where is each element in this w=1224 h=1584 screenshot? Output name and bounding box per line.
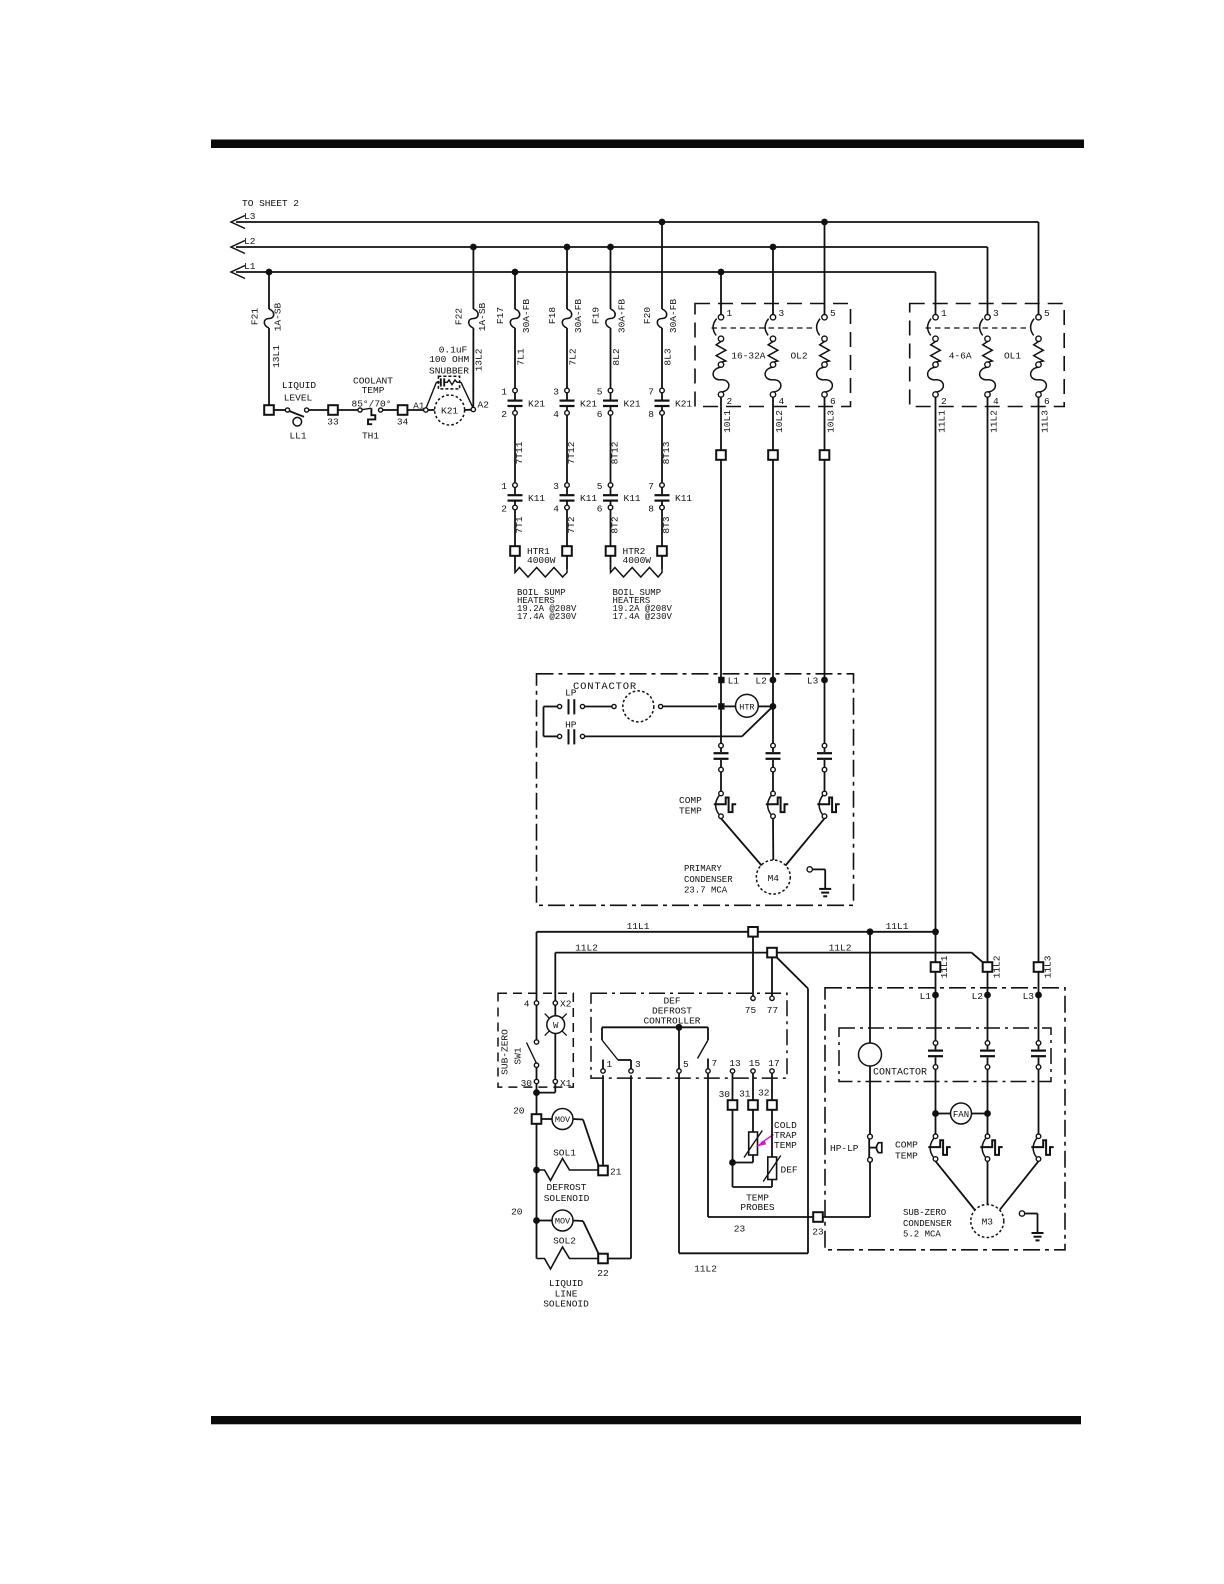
top border bar (211, 140, 1084, 149)
svg-text:PRIMARY: PRIMARY (684, 864, 722, 874)
sub-zero contactor coil (859, 1043, 882, 1066)
node 11L1-OL1 (932, 928, 939, 935)
svg-text:15: 15 (749, 1058, 761, 1069)
terminal 75 tap (748, 927, 758, 937)
svg-text:7T1: 7T1 (514, 516, 525, 533)
thermistor cold trap (752, 1110, 754, 1132)
svg-text:SOL1: SOL1 (553, 1148, 576, 1159)
svg-text:33: 33 (327, 417, 339, 428)
comp temp contact subzero L1 (933, 1134, 938, 1139)
svg-text:F21: F21 (250, 308, 261, 325)
terminal 11L2 (983, 962, 993, 972)
svg-text:A2: A2 (478, 400, 490, 411)
svg-text:TEMP: TEMP (895, 1151, 918, 1162)
svg-text:10L3: 10L3 (826, 410, 837, 433)
wire 23 into subzero box (823, 1216, 870, 1218)
main contact pole L1 (719, 743, 724, 748)
svg-text:L1: L1 (244, 261, 256, 272)
svg-text:TEMP: TEMP (774, 1140, 797, 1151)
svg-text:7: 7 (648, 387, 654, 398)
svg-text:11L2: 11L2 (575, 942, 598, 953)
svg-text:21: 21 (610, 1167, 622, 1178)
wire X1 to node 20 (554, 1084, 556, 1093)
node A1 (424, 408, 428, 412)
svg-text:20: 20 (511, 1207, 523, 1218)
svg-text:F17: F17 (495, 307, 506, 324)
wire subzero comp L2 to M3 (987, 1161, 989, 1204)
pin 17 (770, 1069, 774, 1073)
wire 34 to A1 (407, 409, 423, 411)
svg-text:11L2: 11L2 (829, 942, 852, 953)
svg-text:23.7 MCA: 23.7 MCA (684, 886, 728, 896)
wire L3 to OL1 pin5 (1038, 222, 1040, 315)
svg-text:CONDENSER: CONDENSER (684, 875, 733, 885)
wire MOV1 to 21 (583, 1120, 599, 1167)
svg-text:23: 23 (734, 1224, 746, 1235)
terminal heater 8T2 (606, 546, 616, 556)
svg-text:11L2: 11L2 (989, 410, 1000, 433)
OL2 trip linkage (712, 327, 815, 329)
svg-text:1: 1 (727, 308, 733, 319)
node L3 (821, 677, 828, 684)
svg-text:5: 5 (830, 308, 836, 319)
node probes (729, 1159, 736, 1166)
wire 11L2 horizontal (555, 952, 971, 954)
wire 11L2 diagonal to terminal (972, 953, 985, 964)
terminal 22 (598, 1254, 608, 1264)
main contact pole L2 (771, 743, 776, 748)
sub-zero switch box SW1 (498, 993, 573, 1087)
svg-text:4: 4 (553, 409, 559, 420)
OL1 trip linkage (926, 327, 1029, 329)
svg-text:LIQUID: LIQUID (549, 1278, 584, 1289)
OL2 pole 1-2 (718, 315, 723, 320)
OL1 pole 1-2 (933, 315, 938, 320)
overload relay OL2 box (695, 304, 851, 407)
svg-text:CONDENSER: CONDENSER (903, 1219, 952, 1229)
svg-text:6: 6 (597, 409, 603, 420)
wire defrost pin1 to 21 (602, 1075, 604, 1166)
svg-text:4: 4 (993, 396, 999, 407)
svg-text:CONTROLLER: CONTROLLER (643, 1015, 700, 1026)
contact K11 1-2 (513, 483, 518, 488)
svg-text:17.4A @230V: 17.4A @230V (613, 612, 673, 622)
svg-text:6: 6 (1044, 396, 1050, 407)
svg-text:LIQUID: LIQUID (282, 380, 317, 391)
motor M4 (756, 860, 790, 894)
svg-text:A1: A1 (413, 401, 425, 412)
svg-text:TO SHEET 2: TO SHEET 2 (242, 198, 299, 209)
svg-text:7T2: 7T2 (566, 516, 577, 533)
wire 11L2 tap diagonal (777, 957, 809, 988)
sub-zero pole L1 (933, 1041, 938, 1046)
wire 33 to TH1 (338, 409, 358, 411)
svg-text:11L1: 11L1 (886, 921, 909, 932)
wire 75 up (752, 937, 754, 997)
svg-text:2: 2 (941, 396, 947, 407)
svg-text:K11: K11 (528, 493, 545, 504)
varistor MOV 1 (541, 1118, 552, 1120)
svg-text:16-32A: 16-32A (731, 350, 766, 361)
svg-text:MOV: MOV (555, 1217, 571, 1227)
pin 30 (534, 1079, 538, 1083)
wire 11L3 from OL1 (1038, 406, 1040, 962)
fuse F19 30A-FB (610, 247, 612, 309)
wire coil to HP-LP (869, 1066, 871, 1134)
svg-text:11L1: 11L1 (627, 921, 650, 932)
svg-text:22: 22 (597, 1268, 609, 1279)
fuse F21 1A-SB (268, 272, 270, 309)
pin 5 (677, 1069, 681, 1073)
svg-text:CONTACTOR: CONTACTOR (573, 681, 637, 693)
node L1 (932, 992, 939, 999)
defrost relay internal (602, 1026, 708, 1028)
wire SOL1 node down (536, 1170, 538, 1221)
fan motor FAN (932, 1110, 939, 1117)
contact K11 5-6 (608, 483, 613, 488)
svg-text:X2: X2 (560, 999, 572, 1010)
node L2 (984, 992, 991, 999)
svg-text:L1: L1 (728, 676, 740, 687)
svg-text:MOV: MOV (555, 1115, 571, 1125)
wire 10L2 (772, 406, 774, 450)
svg-text:75: 75 (745, 1005, 757, 1016)
svg-text:17: 17 (768, 1058, 779, 1069)
heater relay HTR (736, 694, 759, 717)
wire net 11L2 from pin5 (678, 1073, 680, 1253)
terminal 23 (813, 1212, 823, 1222)
node coil-L1 (718, 703, 724, 709)
fuse F22 1A-SB (472, 247, 474, 309)
contact K11 7-8 (660, 483, 665, 488)
switch SW1 contact (536, 1005, 538, 1040)
svg-text:32: 32 (758, 1088, 770, 1099)
wire 7T11 (514, 415, 516, 483)
sub-zero pole L3 (1036, 1041, 1041, 1046)
svg-text:1: 1 (607, 1059, 613, 1070)
contact K11 3-4 (565, 483, 570, 488)
svg-text:6: 6 (830, 396, 836, 407)
pin 3 (629, 1069, 633, 1073)
pin 1 (601, 1069, 605, 1073)
terminal 10L1 (716, 450, 726, 460)
wire subzero comp L1 to M3 (936, 1161, 975, 1209)
svg-text:30: 30 (719, 1089, 731, 1100)
wire 77 up (771, 957, 773, 996)
svg-text:LEVEL: LEVEL (284, 393, 313, 404)
wire subzero comp L3 to M3 (1000, 1161, 1039, 1209)
wire L2 into box (772, 460, 774, 744)
overload relay OL1 box (910, 304, 1064, 407)
svg-text:K21: K21 (675, 399, 692, 410)
svg-text:DEF: DEF (781, 1165, 798, 1176)
svg-text:K21: K21 (528, 399, 545, 410)
wire comp temp L1 to M4 (721, 818, 762, 865)
svg-text:K21: K21 (441, 406, 458, 417)
svg-text:8T3: 8T3 (661, 516, 672, 533)
svg-text:OL2: OL2 (790, 350, 807, 361)
svg-text:2: 2 (727, 396, 733, 407)
wire pin13 to 30 (732, 1073, 734, 1100)
svg-text:5: 5 (597, 387, 603, 398)
wire 8T12 (610, 415, 612, 483)
wire poles down (935, 1069, 937, 1134)
wire 7T12 (566, 415, 568, 483)
svg-text:F19: F19 (591, 307, 602, 324)
wire L3 pole to comp temp (824, 772, 826, 791)
wire comp temp L2 to M4 (772, 818, 774, 860)
svg-text:L2: L2 (972, 991, 984, 1002)
node 11L1 contactor tap (867, 928, 874, 935)
node L1 (718, 677, 724, 683)
lamp W (554, 1005, 556, 1016)
svg-text:13L1: 13L1 (271, 345, 282, 368)
svg-text:F18: F18 (547, 307, 558, 324)
wire 7T1 (514, 510, 516, 546)
terminal heater 7T1 (510, 546, 520, 556)
pin 7 (706, 1069, 710, 1073)
wire 22 to defrost pin3 (608, 1258, 631, 1260)
wire 8T3 (661, 510, 663, 546)
wire coil to L1 (663, 705, 717, 707)
thermistor DEF (771, 1110, 773, 1157)
bus L3 (236, 221, 1039, 223)
svg-text:LL1: LL1 (289, 431, 306, 442)
wire L2 to OL1 pin3 (987, 247, 989, 315)
wire L1 to OL1 pin1 (935, 272, 937, 315)
svg-text:11L1: 11L1 (937, 410, 948, 433)
svg-text:1A-SB: 1A-SB (477, 302, 488, 331)
svg-text:3: 3 (993, 308, 999, 319)
pin 15 (751, 1069, 755, 1073)
svg-text:SUB-ZERO: SUB-ZERO (500, 1029, 511, 1075)
wire snubber leg right (461, 382, 473, 407)
annotation arrow (761, 1135, 774, 1144)
wire 11L2 from OL1 (987, 406, 989, 962)
wire probes bottom (733, 1186, 773, 1188)
bottom border bar (211, 1416, 1081, 1424)
main contact pole L3 (822, 743, 827, 748)
terminal 11L1 (931, 962, 941, 972)
wire L3 into box (824, 460, 826, 744)
wire snubber leg left (426, 382, 436, 407)
wire 11L2 down to X2 (554, 953, 556, 1001)
svg-text:5: 5 (597, 481, 603, 492)
wire 7T2 (566, 510, 568, 546)
svg-text:SOLENOID: SOLENOID (543, 1299, 589, 1310)
OL1 pole 3-4 (985, 315, 990, 320)
node below SW1 (533, 1089, 540, 1096)
wire OL2 pin1 to L1 (720, 272, 722, 315)
svg-text:8T12: 8T12 (610, 441, 621, 464)
svg-text:1A-SB: 1A-SB (273, 302, 284, 331)
svg-text:8: 8 (648, 409, 654, 420)
svg-text:8L3: 8L3 (663, 348, 674, 365)
svg-text:30: 30 (521, 1078, 533, 1089)
svg-text:L3: L3 (807, 676, 819, 687)
fuse F18 30A-FB (566, 247, 568, 309)
svg-text:1: 1 (501, 387, 507, 398)
wire OL2 pin3 to L2 (772, 247, 774, 315)
wire MOV2 to 22 (583, 1221, 599, 1254)
primary condenser box (537, 674, 854, 906)
svg-text:SOL2: SOL2 (553, 1236, 576, 1247)
svg-text:K11: K11 (580, 493, 597, 504)
svg-text:11L1: 11L1 (939, 955, 950, 978)
wire 30 down (732, 1110, 734, 1187)
svg-text:COMP: COMP (895, 1140, 918, 1151)
comp temp contact subzero L3 (1036, 1134, 1041, 1139)
OL2 pole 3-4 (770, 315, 775, 320)
node HTR-L2 (770, 703, 777, 710)
wire LP-HP left (544, 706, 558, 708)
svg-text:2: 2 (501, 409, 507, 420)
sub-zero pole L2 (985, 1041, 990, 1046)
svg-text:4000W: 4000W (623, 555, 652, 566)
svg-text:4: 4 (524, 999, 530, 1010)
svg-text:L2: L2 (755, 676, 767, 687)
svg-text:L2: L2 (244, 236, 256, 247)
wire 11L1 down to SW1 (536, 932, 538, 1001)
svg-text:8: 8 (648, 504, 654, 515)
svg-text:8L2: 8L2 (611, 348, 622, 365)
terminal 20 (532, 1114, 542, 1124)
svg-text:SOLENOID: SOLENOID (544, 1193, 590, 1204)
svg-text:TEMP: TEMP (679, 805, 702, 816)
node A2 (471, 407, 475, 411)
svg-text:17.4A @230V: 17.4A @230V (517, 612, 577, 622)
svg-text:4-6A: 4-6A (949, 350, 972, 361)
terminal 34 (398, 405, 408, 415)
terminal 11L3 (1034, 962, 1044, 972)
bus L2 (236, 246, 988, 248)
comp temp contact L2 (771, 791, 776, 796)
contact K21 1-2 (513, 388, 518, 393)
node MOV2 (533, 1217, 540, 1224)
contact K21 5-6 (608, 388, 613, 393)
bus L1 (236, 271, 936, 273)
node L2 (770, 677, 777, 684)
terminal on 13L1 (264, 405, 274, 415)
svg-text:COMP: COMP (679, 795, 702, 806)
wire net 23 from pin7 (707, 1073, 709, 1217)
svg-text:K11: K11 (675, 493, 692, 504)
comp temp contact L3 (822, 791, 827, 796)
wire pin15 to 31 (752, 1073, 754, 1100)
wire L1 into box (720, 460, 722, 744)
svg-text:30A-FB: 30A-FB (573, 299, 584, 334)
contact K21 7-8 (660, 388, 665, 393)
svg-text:7T11: 7T11 (514, 441, 525, 464)
svg-text:2: 2 (501, 504, 507, 515)
svg-text:3: 3 (553, 481, 559, 492)
svg-text:PROBES: PROBES (740, 1202, 775, 1213)
node L3 (1035, 992, 1042, 999)
pin X2 (553, 1001, 557, 1005)
svg-text:34: 34 (397, 417, 409, 428)
svg-text:20: 20 (513, 1106, 525, 1117)
terminal 31 (748, 1100, 758, 1110)
wire 10L1 (720, 406, 722, 450)
ground M3 (1019, 1211, 1024, 1216)
svg-text:1: 1 (941, 308, 947, 319)
OL1 pole 5-6 (1036, 315, 1041, 320)
wire L1 to HTR (725, 705, 736, 707)
svg-text:7L2: 7L2 (568, 348, 579, 365)
relay coil K21 (435, 395, 465, 425)
svg-text:M4: M4 (768, 873, 780, 884)
pin 77 (770, 996, 774, 1000)
svg-text:13: 13 (729, 1058, 741, 1069)
svg-text:11L2: 11L2 (694, 1264, 717, 1275)
svg-text:HP: HP (565, 720, 577, 731)
wire 11L1 from OL1 (935, 406, 937, 962)
defrost controller box (591, 993, 787, 1078)
svg-text:5: 5 (1044, 308, 1050, 319)
terminal 32 (767, 1100, 777, 1110)
svg-text:CONTACTOR: CONTACTOR (873, 1068, 927, 1079)
wire 11L1 tap down to coil (869, 932, 871, 1043)
comp temp contact L1 (719, 791, 724, 796)
varistor MOV 2 (537, 1220, 553, 1222)
svg-text:1: 1 (501, 481, 507, 492)
svg-text:8T2: 8T2 (610, 516, 621, 533)
svg-text:K21: K21 (624, 399, 641, 410)
svg-text:X1: X1 (560, 1078, 572, 1089)
svg-text:L1: L1 (920, 991, 932, 1002)
svg-text:11L3: 11L3 (1043, 955, 1054, 978)
svg-text:30A-FB: 30A-FB (617, 299, 628, 334)
svg-text:TEMP: TEMP (362, 385, 385, 396)
svg-text:4: 4 (553, 504, 559, 515)
comp temp contact subzero L2 (985, 1134, 990, 1139)
svg-text:TH1: TH1 (362, 431, 379, 442)
svg-text:F20: F20 (642, 307, 653, 324)
wire 10L3 (824, 406, 826, 450)
wire 11L1 horizontal (537, 931, 936, 933)
wire 8T2 (610, 510, 612, 546)
svg-text:3: 3 (553, 387, 559, 398)
svg-text:SNUBBER: SNUBBER (429, 365, 469, 376)
svg-text:F22: F22 (454, 308, 465, 325)
terminal 10L3 (820, 450, 830, 460)
terminal 77 tap (767, 948, 777, 958)
wire LL1 to terminal 33 (309, 409, 329, 411)
terminal heater 8T3 (657, 546, 667, 556)
wire node down to SOL2 (536, 1221, 538, 1259)
svg-text:W: W (553, 1021, 559, 1031)
svg-text:HTR: HTR (739, 702, 754, 712)
ground M4 (807, 867, 812, 872)
pin X1 (553, 1079, 557, 1083)
wire L1 pole to comp temp (720, 772, 722, 791)
svg-text:3: 3 (779, 308, 785, 319)
svg-text:HP-LP: HP-LP (830, 1143, 859, 1154)
svg-text:11L2: 11L2 (992, 955, 1003, 978)
svg-text:SUB-ZERO: SUB-ZERO (903, 1208, 946, 1218)
wire 8T13 (661, 415, 663, 483)
wire TH1 to terminal 34 (383, 409, 398, 411)
wire comp temp L3 to M4 (786, 818, 825, 865)
sub-zero condenser box (825, 988, 1065, 1250)
svg-text:23: 23 (812, 1227, 824, 1238)
wire pin17 to 32 (771, 1073, 773, 1100)
svg-text:30A-FB: 30A-FB (668, 299, 679, 334)
svg-text:M3: M3 (982, 1217, 994, 1228)
junction dots on buses (266, 269, 273, 276)
svg-text:10L2: 10L2 (774, 410, 785, 433)
svg-text:31: 31 (739, 1089, 751, 1100)
